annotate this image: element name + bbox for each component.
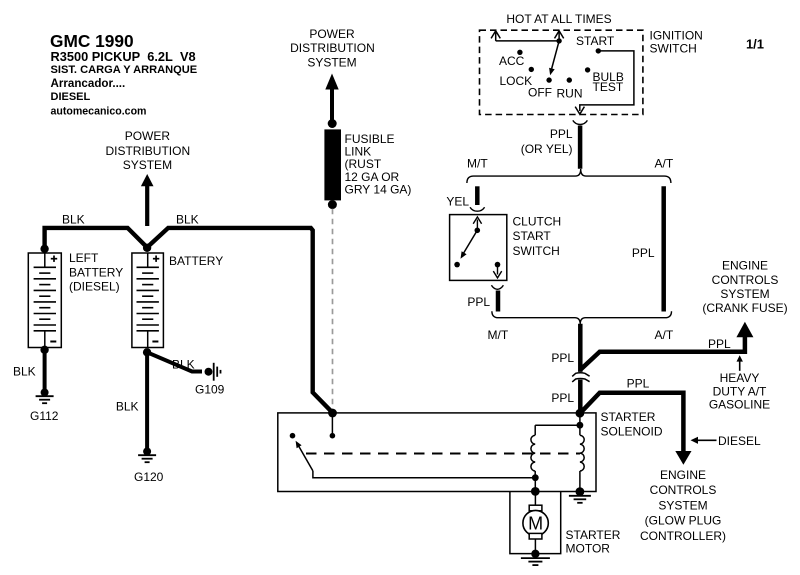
wire PPL from clutch switch [496,291,501,312]
starter solenoid box [278,413,596,492]
svg-text:PPL: PPL [551,351,574,365]
ground connector G109 [205,368,213,376]
wire PPL junction to winding [579,413,581,423]
wire PPL merged [578,324,583,372]
wire arrow shaft (left PDS) [145,186,149,227]
wire winding top link [535,424,577,426]
svg-text:START: START [513,229,552,243]
dashed plunger linkage [306,452,580,454]
wire blade to pull-in winding [313,471,533,478]
svg-text:M/T: M/T [488,328,509,342]
arrow to engine controls system (glow plug) [675,451,691,465]
arrow to power distribution system (middle) [325,74,338,90]
svg-text:HEAVY: HEAVY [720,371,760,385]
svg-text:SIST. CARGA Y ARRANQUE: SIST. CARGA Y ARRANQUE [51,64,198,76]
svg-text:ACC: ACC [499,54,525,68]
arrow up to hot feed (left) [495,33,497,41]
wire right battery to G109 [147,352,202,371]
node left battery top dot [40,245,48,253]
svg-text:BLK: BLK [116,400,139,414]
starter motor M circle [523,510,548,535]
svg-text:CONTROLS: CONTROLS [712,273,779,287]
svg-text:STARTER: STARTER [566,528,621,542]
battery right (BATTERY) [132,253,164,348]
bracket split to M/T and A/T [467,169,671,183]
svg-text:SWITCH: SWITCH [650,42,697,56]
wire fusible link to PDS arrow [330,89,334,124]
node solenoid PPL junction [576,409,585,418]
wire ignition feed horizontal [496,40,559,42]
ground G112 [41,389,49,397]
node contact OFF [546,77,551,82]
ignition switch dashed box [480,30,643,114]
svg-text:R3500 PICKUP 6.2L V8: R3500 PICKUP 6.2L V8 [51,49,196,64]
svg-text:POWER: POWER [125,129,171,143]
svg-text:BATTERY: BATTERY [69,265,123,279]
bracket merge M/T and A/T [492,311,672,324]
node contact RUN [567,77,572,82]
hold-in winding coil [579,425,581,435]
svg-text:BLK: BLK [13,364,36,378]
wire PPL from ignition switch [578,126,583,169]
clutch start switch box [450,215,507,281]
svg-text:PPL: PPL [467,295,490,309]
annotation arrow heavy duty A/T [739,359,741,371]
svg-text:(GLOW PLUG: (GLOW PLUG [645,514,722,528]
ground below starter motor [521,557,550,559]
ground below hold-in winding [569,495,591,497]
node clutch contact left [454,262,460,268]
svg-text:LEFT: LEFT [69,251,99,265]
node contact LOCK [529,67,534,72]
svg-text:DISTRIBUTION: DISTRIBUTION [105,144,190,158]
svg-text:SWITCH: SWITCH [513,244,560,258]
svg-text:1/1: 1/1 [746,37,764,52]
wire PPL to engine controls (glow plug) [581,393,683,452]
node clutch pivot dot [475,228,481,234]
wire PPL below connector [578,380,583,411]
svg-text:SYSTEM: SYSTEM [307,55,356,69]
annotation arrow DIESEL [698,439,717,441]
node solenoid contact left [290,433,296,439]
svg-text:MOTOR: MOTOR [566,541,611,555]
svg-text:SYSTEM: SYSTEM [658,498,707,512]
svg-text:G109: G109 [195,382,225,396]
node contact START [596,48,601,53]
svg-text:ENGINE: ENGINE [722,259,768,273]
wire motor feed to brush [534,492,536,506]
wire PPL A/T branch [661,186,666,311]
node battery junction dot [143,244,151,252]
wire left battery riser and bus to V [45,228,148,249]
svg-text:A/T: A/T [655,157,674,171]
arrow up inside clutch switch [476,220,478,231]
svg-text:BLK: BLK [62,213,85,227]
svg-text:STARTER: STARTER [601,410,656,424]
svg-text:(OR YEL): (OR YEL) [521,142,573,156]
starter motor box [510,492,561,554]
wire right battery to ground G120 [145,352,149,451]
svg-text:POWER: POWER [309,27,355,41]
wire left battery to ground [43,350,47,393]
svg-text:CONTROLLER): CONTROLLER) [640,529,726,543]
node contact ACC [517,50,522,55]
arrow up to hot feed (right) [558,33,560,41]
svg-text:SYSTEM: SYSTEM [123,158,172,172]
connector cup above clutch switch [470,207,485,211]
inline connector on PPL wire [572,373,589,377]
connector cup below clutch switch [491,285,503,289]
clutch switch blade [463,230,477,253]
node fusible link bottom dot [328,200,337,209]
svg-text:GASOLINE: GASOLINE [709,397,770,411]
starter motor top brush [529,505,542,511]
svg-text:PPL: PPL [627,377,650,391]
svg-text:START: START [576,34,615,48]
svg-text:G112: G112 [30,409,59,423]
ignition wiper arm [552,41,559,69]
svg-text:IGNITION: IGNITION [650,29,703,43]
node contact BULB TEST [585,67,590,72]
svg-text:ENGINE: ENGINE [660,468,706,482]
fusible link bar [324,129,341,200]
svg-text:(DIESEL): (DIESEL) [69,280,120,294]
svg-text:PPL: PPL [550,127,573,141]
solenoid plunger blade [298,445,313,471]
wire winding bottom to motor feed [534,478,536,489]
battery left (LEFT BATTERY DIESEL) [28,253,61,348]
svg-text:BLK: BLK [172,358,195,372]
svg-text:DIESEL: DIESEL [718,434,761,448]
connector cup below ignition switch [573,120,588,124]
svg-text:SYSTEM: SYSTEM [720,287,769,301]
svg-text:CLUTCH: CLUTCH [513,214,562,228]
svg-text:PPL: PPL [708,337,731,351]
pull-in winding coil [534,425,536,435]
node ignition pivot dot [556,38,561,43]
wire feed to movable contact [331,413,333,434]
svg-text:M: M [528,514,543,534]
svg-text:G120: G120 [134,470,164,484]
svg-text:DIESEL: DIESEL [51,91,91,103]
svg-text:(CRANK FUSE): (CRANK FUSE) [702,301,787,315]
wire motor to ground [534,539,536,552]
node clutch contact right [495,262,501,268]
svg-text:PPL: PPL [632,246,655,260]
node hold-in winding ground dot [576,487,585,496]
svg-text:DUTY A/T: DUTY A/T [713,384,767,398]
svg-text:BLK: BLK [176,213,199,227]
svg-text:GRY 14 GA): GRY 14 GA) [345,182,412,196]
ground G120 [143,448,151,456]
svg-text:OFF: OFF [528,86,552,100]
node left battery bottom dot [40,346,48,354]
wire PPL to engine controls (crank fuse) [580,337,745,370]
node solenoid contact right [330,433,336,439]
arrow down ignition output [575,107,584,115]
arrow to engine controls system (crank fuse) [736,322,753,337]
node right battery bottom dot [143,348,151,356]
wire dashed fusible-link branch to solenoid [332,209,334,410]
node solenoid feed junction [328,409,337,418]
node hold-in winding top dot [577,422,584,429]
arrow to power distribution system (left) [141,174,154,186]
node motor feed dot [531,487,540,496]
svg-text:CONTROLS: CONTROLS [650,483,717,497]
svg-text:YEL: YEL [446,194,469,208]
svg-text:BATTERY: BATTERY [169,254,223,268]
node pull-in winding bottom dot [532,474,539,481]
arrow down clutch output [497,265,499,275]
starter motor bottom brush [529,533,542,539]
node fusible link top dot [328,119,337,128]
svg-text:RUN: RUN [557,87,583,101]
wire bus from V to solenoid feed corner [147,228,332,413]
wire START output loop [580,51,634,111]
wire YEL to clutch switch [475,186,480,205]
svg-text:TEST: TEST [593,80,624,94]
svg-text:automecanico.com: automecanico.com [51,105,147,117]
svg-text:PPL: PPL [551,391,574,405]
svg-text:A/T: A/T [655,328,674,342]
svg-text:HOT AT ALL TIMES: HOT AT ALL TIMES [506,12,611,26]
svg-text:SOLENOID: SOLENOID [601,424,663,438]
svg-text:DISTRIBUTION: DISTRIBUTION [290,41,375,55]
node motor ground dot [531,550,539,558]
svg-text:M/T: M/T [467,157,488,171]
svg-text:Arrancador....: Arrancador.... [51,77,126,90]
